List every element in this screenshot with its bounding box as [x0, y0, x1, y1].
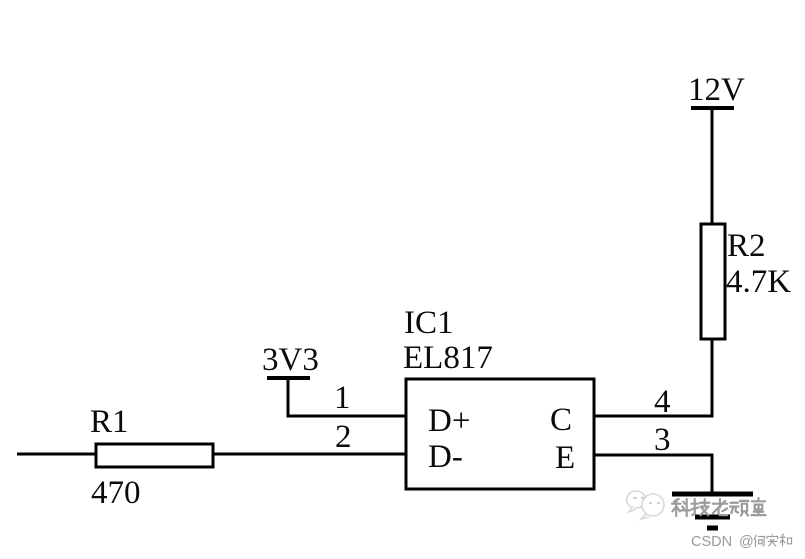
安	[767, 534, 778, 546]
watermark logo speech bubbles	[627, 491, 664, 519]
wire R2 bottom to pin-4 net	[711, 339, 714, 417]
svg-text:470: 470	[91, 475, 141, 511]
op-amp IC1 optocoupler box	[406, 379, 594, 489]
resistor R1	[96, 444, 213, 467]
svg-text:EL817: EL817	[403, 340, 493, 376]
power 3V3 bar symbol	[267, 376, 310, 380]
svg-text:4: 4	[654, 384, 671, 420]
wire R1 to IC pin 2 (D-)	[213, 453, 406, 456]
watermark text CSDN @何安和	[691, 534, 792, 550]
wire IC pin 4 (C) to R2	[594, 415, 714, 418]
wire 3V3 to IC pin 1 (D+)	[287, 415, 407, 418]
svg-text:IC1: IC1	[404, 305, 454, 341]
顽	[730, 501, 749, 516]
ground	[672, 494, 753, 528]
svg-text:D-: D-	[428, 439, 463, 475]
wire IC pin 3 (E) to ground	[594, 455, 712, 495]
和	[780, 534, 792, 546]
svg-text:3V3: 3V3	[262, 342, 319, 378]
svg-text:2: 2	[335, 419, 352, 455]
科	[672, 499, 690, 516]
power 12V bar symbol	[691, 106, 734, 110]
watermark text 科技老顽童 (drawn strokes)	[672, 498, 766, 516]
svg-text:3: 3	[654, 422, 671, 458]
svg-text:E: E	[555, 440, 575, 476]
svg-text:D+: D+	[428, 403, 470, 439]
svg-text:CSDN: CSDN	[691, 534, 732, 550]
svg-text:R1: R1	[90, 404, 129, 440]
svg-text:4.7K: 4.7K	[726, 264, 791, 300]
svg-text:@: @	[739, 534, 754, 550]
wire 12V stem down to R2	[711, 108, 714, 225]
svg-text:R2: R2	[727, 228, 766, 264]
resistor R2	[701, 224, 725, 339]
svg-text:12V: 12V	[688, 72, 745, 108]
wire 3V3 stem down	[287, 378, 290, 417]
wire left lead of R1	[17, 453, 96, 456]
技	[691, 499, 709, 515]
何	[754, 535, 765, 547]
svg-text:1: 1	[334, 380, 351, 416]
童	[751, 498, 765, 515]
老	[713, 499, 727, 515]
svg-text:C: C	[550, 402, 572, 438]
